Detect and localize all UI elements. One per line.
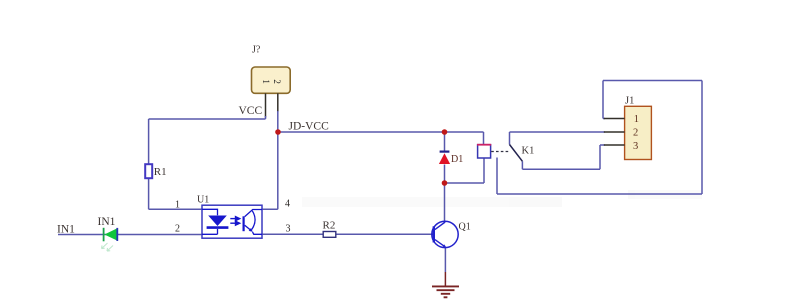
wire VCC row (149, 118, 266, 120)
wire VCC left vertical through R1 to U1 pin1 (149, 119, 202, 209)
op-amp U1 optocoupler (175, 195, 291, 239)
svg-text:R2: R2 (323, 220, 336, 232)
net label JD-VCC (289, 121, 330, 133)
svg-text:JD-VCC: JD-VCC (289, 121, 330, 133)
svg-text:3: 3 (633, 141, 638, 152)
junction D1 top (442, 129, 448, 135)
relay switch K1 (510, 145, 535, 162)
watermark (302, 190, 702, 207)
svg-text:1: 1 (634, 114, 639, 125)
resistor R1 (145, 164, 166, 178)
jumper J? (252, 45, 291, 120)
svg-text:1: 1 (261, 79, 271, 84)
net label IN1 (57, 224, 75, 236)
ground (432, 286, 459, 297)
wire NO contact to J1 pin3 (522, 145, 605, 169)
LED IN1 (98, 216, 118, 251)
wire JD-VCC row (278, 132, 484, 145)
svg-text:3: 3 (286, 223, 291, 234)
wire NC contact loop to J1 pin1 (497, 81, 702, 195)
wire D1 branch / Q1 collector riser (444, 132, 446, 221)
svg-text:4: 4 (285, 198, 290, 209)
power port VCC (239, 105, 263, 117)
svg-text:K1: K1 (522, 145, 535, 156)
svg-text:D1: D1 (451, 154, 463, 165)
wire R2 to Q1 base (336, 233, 434, 235)
svg-text:R1: R1 (154, 166, 167, 178)
svg-text:J1: J1 (625, 96, 634, 107)
svg-text:1: 1 (175, 199, 180, 210)
svg-text:Q1: Q1 (459, 221, 471, 232)
resistor R2 (323, 220, 336, 238)
wire Q1 emitter to ground (444, 248, 446, 287)
svg-text:J?: J? (252, 45, 261, 56)
junction D1 bottom (442, 180, 448, 186)
svg-text:U1: U1 (197, 195, 209, 206)
diode D1 (439, 152, 463, 165)
wire coil bottom to collector junction (445, 158, 485, 183)
connector J1 (604, 96, 652, 160)
svg-text:2: 2 (272, 79, 282, 84)
wire relay pole / J1 pin2 row (510, 132, 606, 145)
svg-text:IN1: IN1 (57, 224, 75, 236)
wire U1 pin3 to R2 (262, 233, 323, 235)
svg-text:2: 2 (633, 128, 638, 139)
wire IN1 row to U1 pin2 (58, 234, 202, 236)
svg-text:IN1: IN1 (98, 216, 116, 228)
wire U1 pin4 riser to JD-VCC junction (262, 119, 278, 209)
svg-text:VCC: VCC (239, 105, 263, 117)
svg-text:2: 2 (175, 223, 180, 234)
transistor Q1 (432, 221, 471, 247)
relay coil K1 (477, 145, 509, 158)
junction JD-VCC left (275, 129, 281, 135)
